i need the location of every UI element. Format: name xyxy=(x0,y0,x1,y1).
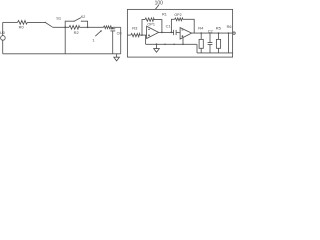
node op2 feedback tap xyxy=(171,32,173,34)
op-amp OP1 xyxy=(147,22,159,38)
wire node A vertical to bottom rail xyxy=(64,27,66,54)
svg-text:OP1: OP1 xyxy=(147,22,155,26)
op-amp OP2 xyxy=(180,28,192,39)
voltage source U0 xyxy=(0,31,5,40)
resistor R3 xyxy=(131,26,140,37)
wire op2 output xyxy=(192,32,233,34)
svg-text:K2: K2 xyxy=(81,15,85,19)
output terminal xyxy=(233,32,235,34)
svg-text:R6: R6 xyxy=(227,25,232,29)
svg-text:R1: R1 xyxy=(162,13,167,17)
switch S1 xyxy=(45,16,62,28)
wire left vertical xyxy=(2,22,4,53)
svg-text:OP2: OP2 xyxy=(174,13,181,17)
wire R0 to switch S1 xyxy=(27,21,45,23)
svg-text:C1: C1 xyxy=(166,24,171,28)
node A junction xyxy=(64,26,66,28)
wire L1 to right vertical xyxy=(113,26,121,28)
svg-text:R2: R2 xyxy=(74,30,80,35)
resistor R0 xyxy=(18,21,28,30)
annotation arrow to L1 with label 1 xyxy=(92,30,102,42)
resistor R2 xyxy=(69,26,80,36)
resistor R4 shunt xyxy=(198,26,204,53)
svg-text:R4: R4 xyxy=(198,26,204,31)
resistor R7 op2 feedback loop xyxy=(171,13,194,33)
wire node B to L1 xyxy=(80,26,104,28)
wire right vertical of left loop xyxy=(120,27,122,54)
node R5 tap xyxy=(218,32,220,34)
wire output branch R6 xyxy=(227,25,232,53)
svg-text:S1: S1 xyxy=(56,16,62,21)
wire box input xyxy=(127,34,130,36)
node feedback join xyxy=(161,32,163,34)
label 100 with leader xyxy=(155,0,164,9)
ground G1 xyxy=(114,54,120,61)
inductor L1 xyxy=(104,26,113,29)
node rail joints xyxy=(164,44,166,46)
node op2 ground join xyxy=(182,44,184,46)
svg-text:C2: C2 xyxy=(208,29,213,33)
wire S1 to R2 xyxy=(53,26,69,28)
capacitor C1 coupling xyxy=(166,24,181,35)
node R4 tap xyxy=(200,32,202,34)
node feedback tap xyxy=(141,34,143,36)
svg-text:R5: R5 xyxy=(216,26,222,31)
amplifier module box 100 xyxy=(127,9,232,57)
svg-text:R3: R3 xyxy=(132,26,138,31)
node B junction xyxy=(87,26,89,28)
wire R3 to op-amp xyxy=(140,34,147,36)
switch K2 bypass branch xyxy=(65,15,87,27)
capacitor C2 shunt xyxy=(208,29,213,53)
resistor R5 shunt xyxy=(216,26,222,53)
wire bottom rail xyxy=(3,53,121,55)
ground G2 xyxy=(154,43,160,52)
wire op2 plus to ground rail xyxy=(182,38,184,45)
svg-text:C0: C0 xyxy=(117,31,122,35)
wire top-left horizontal xyxy=(3,21,18,23)
svg-text:U0: U0 xyxy=(0,31,5,35)
svg-text:R0: R0 xyxy=(19,25,25,30)
wire bottom rail right section xyxy=(197,44,233,53)
svg-text:1: 1 xyxy=(92,37,95,42)
wire op1 output xyxy=(159,31,174,33)
ground rail inside box xyxy=(146,43,197,45)
capacitor C0 shunt xyxy=(110,27,121,54)
wire op1 plus input to ground rail xyxy=(145,35,147,44)
resistor R1 feedback loop xyxy=(142,13,167,36)
